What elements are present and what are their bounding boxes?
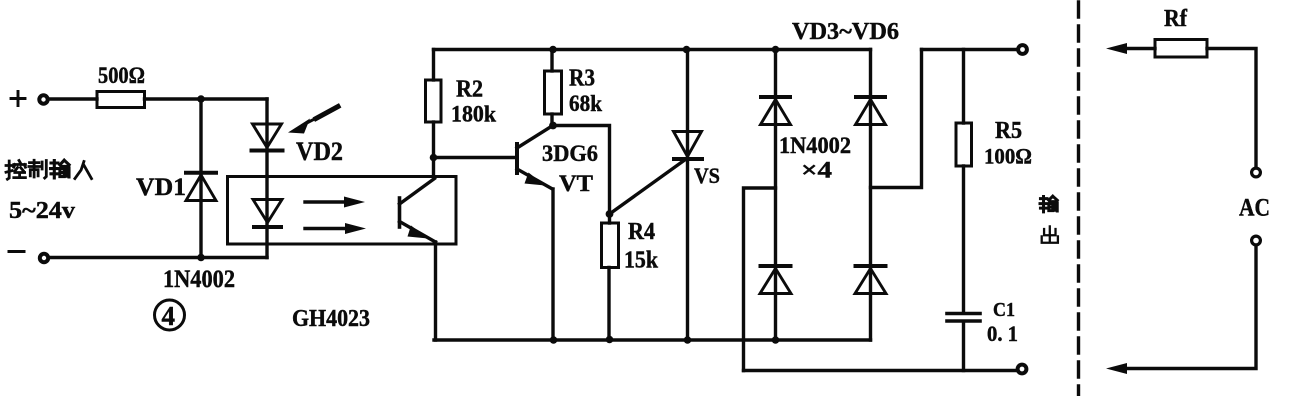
wire input bottom [49, 256, 267, 259]
wire to VT base [434, 156, 516, 159]
arrow to load top [1106, 43, 1127, 54]
label R3 [569, 66, 595, 92]
resistor R2 [426, 80, 442, 122]
wire R2 bottom into optocoupler [432, 122, 435, 177]
svg-text:AC: AC [1239, 195, 1270, 222]
label 3DG6 [542, 141, 598, 166]
terminal AC top [1252, 168, 1261, 177]
label 0.1 [987, 321, 1018, 346]
diode VD4 [856, 97, 886, 125]
node collector gate junction [549, 122, 557, 130]
resistor R3 [545, 71, 562, 114]
svg-text:3DG6: 3DG6 [542, 141, 598, 166]
svg-text:GH4023: GH4023 [292, 306, 370, 332]
wire phototransistor emitter down [434, 242, 437, 340]
wire R4 bottom [607, 268, 610, 341]
diode VD1 [186, 173, 216, 201]
diode VD6 [855, 266, 886, 294]
label GH4023 [292, 306, 370, 332]
wire bridge left branch upper [774, 50, 777, 341]
wire R5 top [962, 50, 965, 124]
label 180k [451, 102, 496, 127]
label R2 [456, 77, 483, 103]
node bridge left top junction [772, 46, 780, 54]
wire input+ to resistor [49, 97, 98, 100]
label VT [559, 171, 593, 196]
node VS bottom [684, 336, 692, 344]
wire VD1 branch upper [199, 99, 202, 258]
wire load bottom [1124, 246, 1256, 369]
label 1N4002 input diode [163, 266, 235, 293]
wire R2 top [432, 50, 435, 81]
phototransistor emitter with arrow [400, 222, 436, 243]
thyristor VS [674, 132, 703, 160]
wire bottom rail main [434, 338, 871, 341]
svg-text:VD3~VD6: VD3~VD6 [792, 19, 899, 45]
arrow to load bottom [1106, 363, 1127, 374]
label control input chinese [6, 160, 92, 179]
terminal AC bottom [1252, 236, 1261, 245]
dashed separator line [1077, 2, 1080, 396]
transistor VT collector [517, 126, 552, 148]
label C1 [993, 299, 1015, 321]
phototransistor base bar [398, 198, 402, 227]
label 500 ohm [98, 63, 145, 88]
wire thyristor gate [610, 161, 685, 215]
resistor R5 [956, 123, 972, 166]
svg-text:VD2: VD2 [296, 137, 343, 166]
svg-text:0. 1: 0. 1 [987, 321, 1018, 346]
wire R5 to C1 [962, 166, 965, 312]
node VT emitter bottom [550, 336, 558, 344]
terminal output top [1018, 45, 1027, 54]
light coupling arrow lower [305, 223, 366, 234]
node VS top junction [683, 46, 691, 54]
svg-text:100Ω: 100Ω [984, 144, 1032, 169]
wire R3 top [550, 50, 553, 72]
node junction bottom of VD1 [197, 254, 205, 262]
label AC [1239, 195, 1270, 222]
label figure number 4 [155, 300, 185, 331]
terminal input + [39, 95, 47, 103]
optocoupler U1 GH4023 box [228, 177, 457, 245]
label VD3-VD6 [792, 19, 899, 45]
wire VD2 to LED [265, 177, 268, 258]
wire R3 bottom [550, 114, 553, 126]
wire C1 bottom [962, 323, 965, 371]
label R4 [628, 219, 655, 245]
label R5 [995, 118, 1022, 144]
transistor VT base bar [515, 144, 519, 173]
terminal output bottom [1018, 365, 1027, 374]
wire corner down to VD2 [265, 99, 268, 177]
node junction top of VD1 [197, 95, 205, 103]
wire top rail main [434, 48, 871, 51]
wire VT emitter down [551, 189, 554, 340]
svg-text:5~24v: 5~24v [9, 198, 75, 224]
node base drive junction [430, 154, 438, 162]
node R4 bottom [606, 336, 614, 344]
label 1N4002 bridge [779, 133, 851, 158]
svg-text:C1: C1 [993, 299, 1015, 321]
label 100 ohm [984, 144, 1032, 169]
light coupling arrow upper [305, 197, 365, 208]
svg-text:VD1: VD1 [136, 174, 186, 201]
wire AC node right tap [871, 50, 922, 188]
label x4 [801, 158, 833, 183]
label VS [694, 163, 720, 188]
wire resistor to VD2 corner [145, 97, 268, 100]
svg-text:180k: 180k [451, 102, 496, 127]
label VD1 [136, 174, 186, 201]
label 15k [624, 248, 659, 274]
label Rf [1164, 6, 1188, 32]
transistor VT emitter with arrow [517, 169, 553, 189]
svg-text:15k: 15k [624, 248, 659, 274]
wire output bottom rail [744, 369, 1018, 372]
wire AC node left tap [744, 188, 776, 371]
node gate R4 junction [606, 210, 614, 218]
wire VS anode [686, 50, 689, 341]
svg-text:R5: R5 [995, 118, 1022, 144]
svg-text:VT: VT [559, 171, 593, 196]
svg-text:VS: VS [694, 163, 720, 188]
svg-text:68k: 68k [569, 91, 602, 116]
diode VD5 [760, 266, 791, 294]
phototransistor collector [400, 179, 435, 205]
capacitor C1 [947, 314, 980, 322]
wire output top rail [922, 48, 1018, 51]
svg-text:500Ω: 500Ω [98, 63, 145, 88]
resistor R4 [602, 223, 619, 268]
minus polarity mark [9, 250, 24, 253]
svg-text:R4: R4 [628, 219, 655, 245]
svg-text:R3: R3 [569, 66, 595, 92]
svg-text:4: 4 [162, 301, 176, 331]
wire load top left [1124, 47, 1155, 50]
plus polarity mark [11, 92, 25, 106]
label output chinese [1040, 196, 1058, 243]
node bridge left bottom junction [772, 336, 780, 344]
label 5-24v [9, 198, 75, 224]
diode VD3 [761, 97, 791, 125]
node R3 top junction [549, 46, 557, 54]
wire bridge right branch upper [869, 50, 872, 341]
wire collector node to R4 top [553, 126, 610, 224]
label VD2 [296, 137, 343, 166]
svg-text:×4: ×4 [801, 158, 833, 183]
LED inside optocoupler [253, 200, 282, 228]
resistor 500ohm [97, 92, 145, 108]
svg-text:1N4002: 1N4002 [779, 133, 851, 158]
svg-text:R2: R2 [456, 77, 483, 103]
label 68k [569, 91, 602, 116]
terminal input - [40, 254, 48, 262]
svg-text:1N4002: 1N4002 [163, 266, 235, 293]
diode VD2 [252, 124, 283, 151]
wire load top right [1207, 49, 1256, 168]
svg-text:Rf: Rf [1164, 6, 1188, 32]
resistor Rf [1155, 40, 1207, 58]
light arrow at VD2 [288, 107, 338, 134]
